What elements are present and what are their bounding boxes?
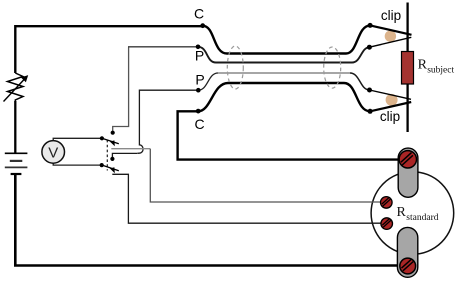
svg-text:R: R [418, 58, 428, 73]
svg-text:P: P [195, 71, 204, 87]
svg-text:C: C [194, 5, 204, 21]
svg-text:subject: subject [427, 66, 454, 76]
svg-text:clip: clip [380, 109, 400, 124]
svg-text:V: V [48, 144, 58, 161]
svg-text:standard: standard [406, 213, 438, 223]
svg-text:R: R [397, 205, 407, 220]
svg-text:P: P [195, 47, 204, 63]
svg-text:C: C [195, 116, 205, 132]
svg-text:clip: clip [381, 8, 401, 23]
